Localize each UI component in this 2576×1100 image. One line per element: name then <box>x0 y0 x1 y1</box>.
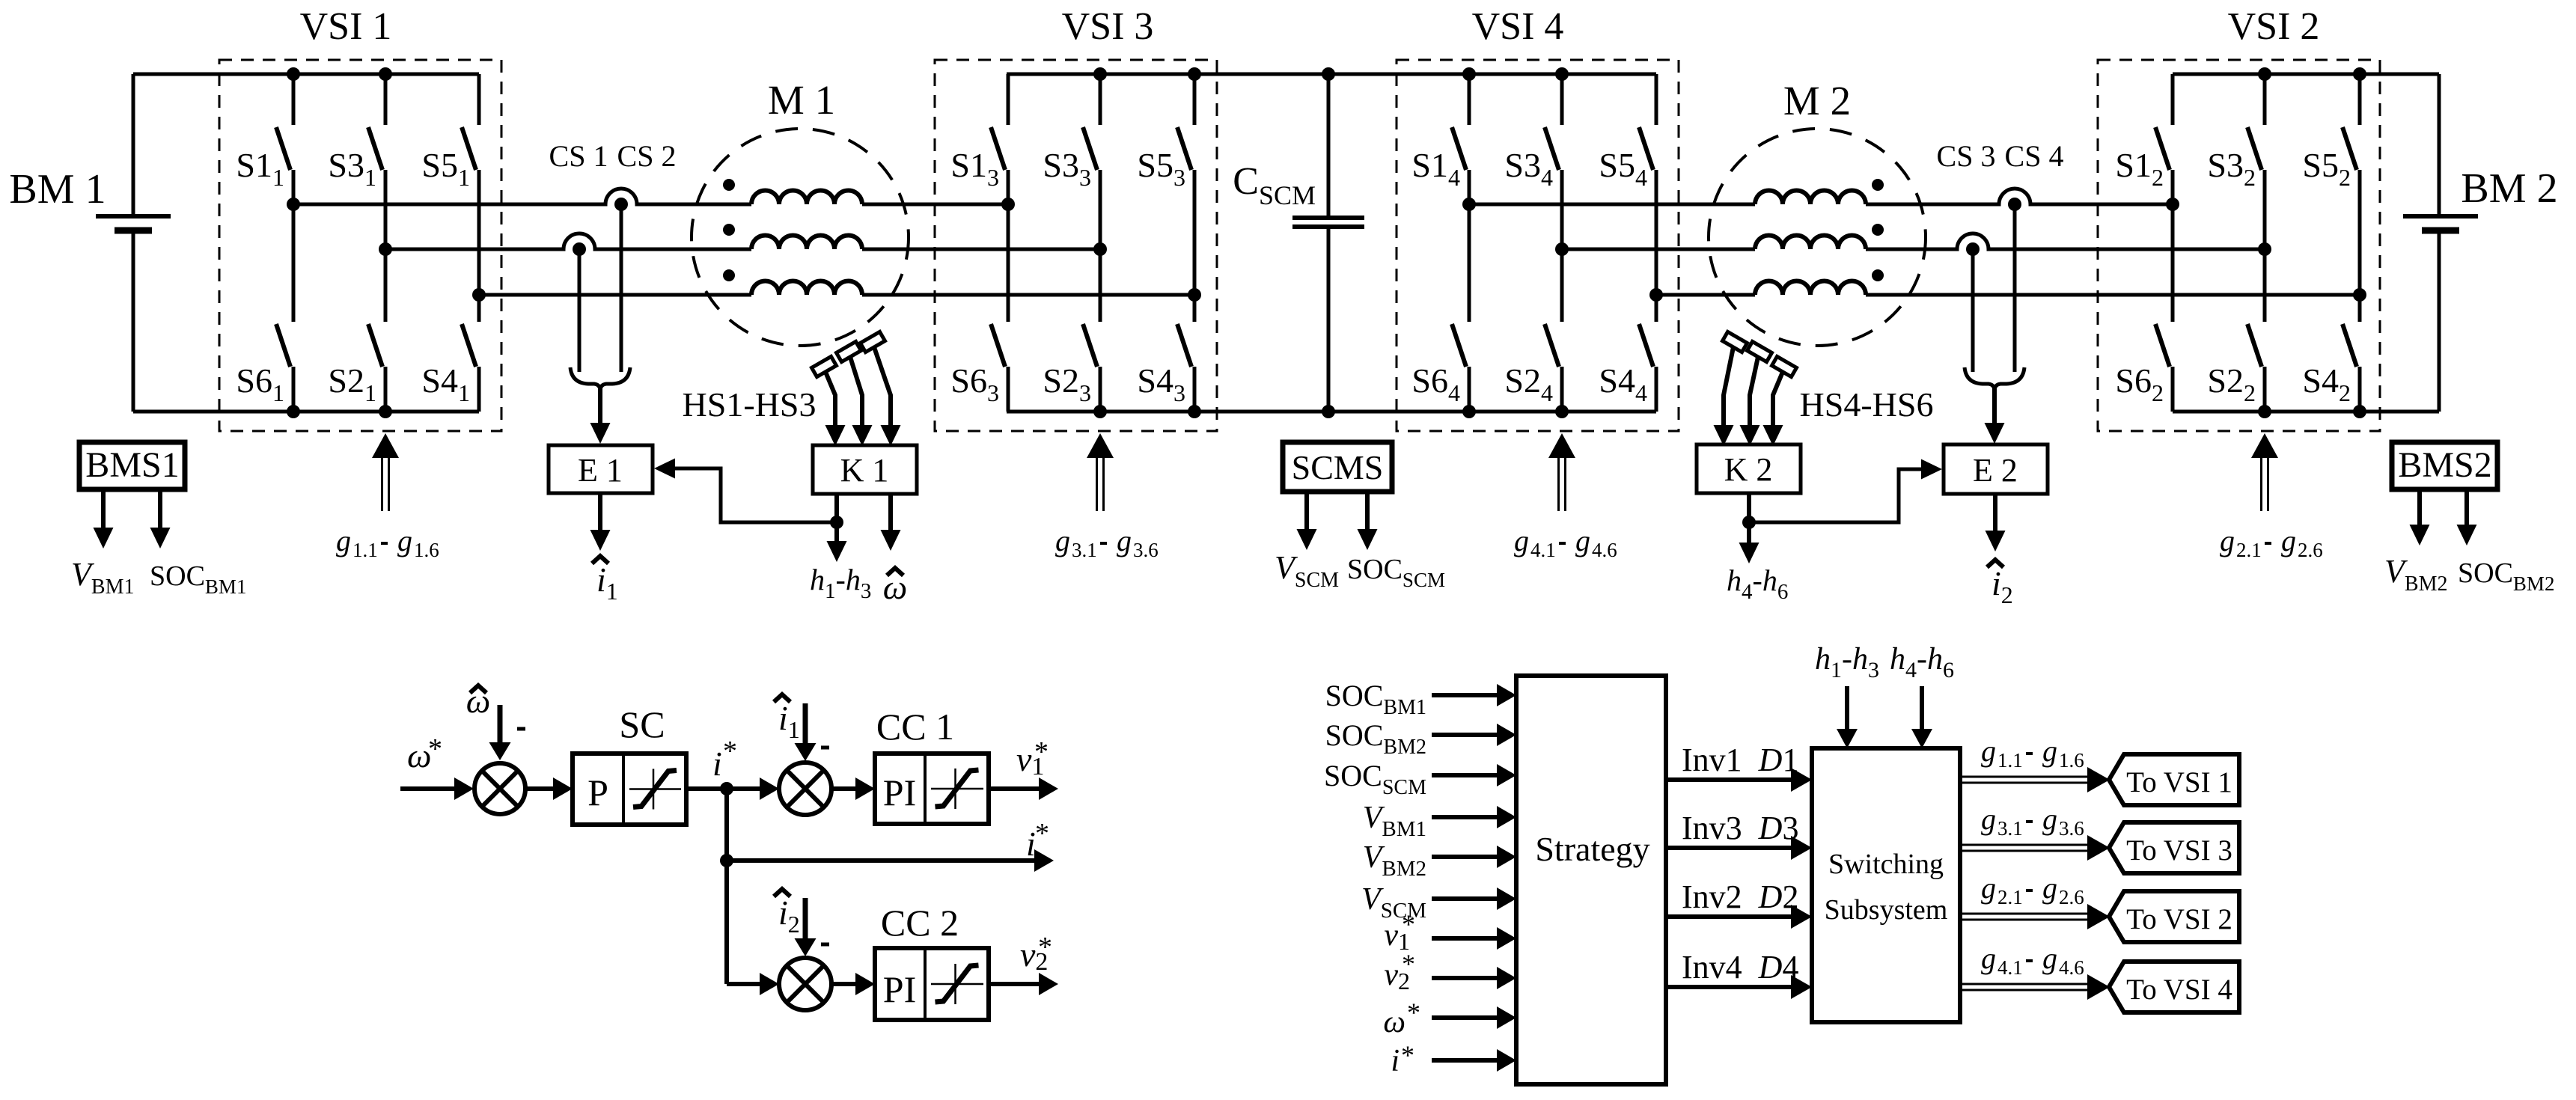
wire feedback K1 to E1 <box>654 459 837 523</box>
arrow input V_BM1 into Strategy <box>1432 806 1516 828</box>
block CC1 (PI with saturation) <box>875 754 989 824</box>
svg-text:Inv1 D1: Inv1 D1 <box>1682 742 1798 778</box>
hall sensor HS6 <box>1763 356 1797 446</box>
wire CS1 sense <box>578 249 582 372</box>
svg-text:g: g <box>2281 524 2296 557</box>
arrow V_BM1 out of BMS1 <box>94 489 114 549</box>
svg-text:Inv3 D3: Inv3 D3 <box>1682 810 1798 846</box>
label g3.1-g3.6 bus <box>1981 802 2084 840</box>
label CS 1 CS 2 <box>549 139 677 173</box>
winding M2 phase B <box>1755 236 1866 250</box>
svg-text:Subsystem: Subsystem <box>1825 894 1948 926</box>
wire phase B VSI4-M2 <box>1562 248 1755 251</box>
wire dc bus bottom VSI3-VSI4 <box>1007 410 1656 414</box>
switch S3_1 <box>328 74 385 249</box>
arrow omega_hat into sum1 <box>489 705 511 760</box>
label minus sum1 <box>517 727 525 731</box>
svg-text:4.1: 4.1 <box>1530 539 1556 561</box>
svg-text:g: g <box>397 524 412 557</box>
current sensor CS3 <box>1966 242 1980 256</box>
switch S1_2 <box>2115 74 2173 204</box>
svg-text:P: P <box>587 771 608 813</box>
svg-text:Inv4 D4: Inv4 D4 <box>1682 949 1798 986</box>
label BM 1 <box>9 166 106 213</box>
wire sum1 to SC <box>525 777 573 800</box>
svg-text:To VSI 4: To VSI 4 <box>2126 974 2232 1006</box>
svg-text:VSI 1: VSI 1 <box>300 5 392 48</box>
wire dc bus top BM1-VSI1 <box>133 73 479 76</box>
arrow i2 out of E2 <box>1986 494 2006 551</box>
label SOC_SCM <box>1347 554 1445 591</box>
hall sensor HS3 <box>861 331 901 446</box>
arrow Inv3 D3 Strategy to Switching <box>1666 836 1812 860</box>
svg-text:*: * <box>1407 997 1420 1027</box>
svg-text:K 2: K 2 <box>1724 451 1773 488</box>
switch S3_3 <box>1043 74 1100 249</box>
label BM 2 <box>2461 165 2557 212</box>
svg-text:3.1: 3.1 <box>1072 539 1097 561</box>
svg-text:HS4-HS6: HS4-HS6 <box>1800 385 1934 424</box>
svg-text:g: g <box>1117 524 1132 557</box>
switch S5_4 <box>1599 74 1656 295</box>
label g1.1-g1.6 bus <box>1981 734 2084 771</box>
label h4-h6 top <box>1890 642 1954 682</box>
switch S2_1 <box>328 249 385 412</box>
svg-text:3.6: 3.6 <box>2059 817 2084 840</box>
label i_star output <box>1026 818 1049 863</box>
svg-text:g: g <box>2042 802 2057 836</box>
wire phase B M1-VSI3 <box>862 248 1100 251</box>
wire dc bus top VSI3-VSI4 <box>1007 73 1656 76</box>
bracket CS3-CS4 <box>1965 367 2024 391</box>
label minus sum3 <box>821 943 829 947</box>
arrow i2_hat into sum3 <box>795 898 817 956</box>
block BMS1 <box>79 442 185 489</box>
inverter VSI3 dashed box <box>935 60 1217 431</box>
switch S4_4 <box>1599 295 1656 412</box>
wire i_star branch down <box>720 789 733 984</box>
svg-text:2.6: 2.6 <box>2298 539 2323 561</box>
bus g4.1-g4.6 Switching to tag <box>1960 974 2110 1000</box>
block CC2 (PI with saturation) <box>875 948 989 1020</box>
label omega_star input <box>407 733 442 774</box>
wire CS3 sense <box>1971 249 1975 372</box>
svg-text:i: i <box>712 745 722 783</box>
svg-text:ω: ω <box>1383 1005 1405 1039</box>
label CC 2 <box>881 902 959 944</box>
svg-text:CS 2: CS 2 <box>617 139 677 173</box>
block K2 <box>1697 444 1801 493</box>
arrow Inv4 D4 Strategy to Switching <box>1666 975 1812 999</box>
junction dots VSI3 phase inputs <box>1001 198 1201 302</box>
motor M1 dashed circle <box>692 129 909 346</box>
hall sensor HS2 <box>837 341 873 446</box>
capacitor C_SCM <box>1292 74 1364 412</box>
label VSI 3 <box>1062 5 1154 48</box>
label V_BM2 <box>2384 553 2447 596</box>
arrow SOC_BM1 out of BMS1 <box>150 489 171 549</box>
label CS 3 CS 4 <box>1937 139 2064 173</box>
label g2.1-g2.6 bus <box>1981 871 2084 908</box>
label g2.1-g2.6 <box>2220 524 2323 561</box>
label Inv2 D2 <box>1682 879 1798 915</box>
svg-text:VSI 4: VSI 4 <box>1472 5 1564 48</box>
arrow Inv1 D1 Strategy to Switching <box>1666 768 1812 792</box>
label Inv1 D1 <box>1682 742 1798 778</box>
arrow input v1_star into Strategy <box>1432 927 1516 950</box>
arrow h1-h3 out of K1 <box>827 494 847 562</box>
svg-text:M 2: M 2 <box>1783 78 1851 123</box>
winding M2 phase A <box>1755 191 1866 205</box>
svg-text:CC 2: CC 2 <box>881 902 959 944</box>
svg-text:1.6: 1.6 <box>2059 749 2084 771</box>
block K1 <box>813 445 917 494</box>
wire sum2 to CC1 <box>831 777 875 800</box>
switch S2_4 <box>1504 249 1562 412</box>
svg-text:ω: ω <box>883 568 907 606</box>
arrow input V_SCM into Strategy <box>1432 887 1516 910</box>
arrow i_star output <box>727 849 1054 872</box>
label Inv4 D4 <box>1682 949 1798 986</box>
svg-text:E 1: E 1 <box>578 452 623 489</box>
bus g3.1-g3.6 Switching to tag <box>1960 835 2110 861</box>
arrow omega_star into sum1 <box>400 777 474 800</box>
switch S1_4 <box>1411 74 1469 204</box>
svg-text:1.1: 1.1 <box>352 539 378 561</box>
block E1 <box>549 445 653 493</box>
svg-text:*: * <box>1038 932 1052 963</box>
switch S2_3 <box>1043 249 1100 412</box>
label g4.1-g4.6 <box>1514 524 1617 561</box>
wire feedback K2 to E2 <box>1749 459 1942 523</box>
svg-text:E 2: E 2 <box>1973 452 2018 489</box>
svg-text:SC: SC <box>619 703 665 745</box>
label SOC_BM2 <box>2458 557 2554 595</box>
arrow input SOC_BM2 into Strategy <box>1432 724 1516 746</box>
svg-text:Strategy: Strategy <box>1535 830 1649 868</box>
battery BM1 <box>96 74 171 412</box>
switch S1_1 <box>236 74 293 204</box>
svg-text:*: * <box>723 736 737 767</box>
arrow V_SCM out of SCMS <box>1297 492 1317 550</box>
svg-text:Switching: Switching <box>1828 849 1944 880</box>
wire phase B VSI1-M1 (with CS1 hump) <box>385 233 751 249</box>
svg-text:3.6: 3.6 <box>1133 539 1159 561</box>
current sensor CS4 <box>2008 198 2021 211</box>
svg-text:4.1: 4.1 <box>1997 956 2023 979</box>
label h1-h3 <box>810 563 871 603</box>
tag To VSI 3 <box>2109 822 2239 873</box>
switch S4_3 <box>1137 295 1194 412</box>
label omega_hat K1 <box>883 568 907 606</box>
arrow input V_BM2 into Strategy <box>1432 846 1516 868</box>
switch S4_2 <box>2302 295 2360 412</box>
svg-text:i: i <box>1391 1044 1400 1078</box>
arrow h4-h6 out of K2 <box>1739 493 1759 563</box>
label CC 1 <box>876 706 954 748</box>
block Switching Subsystem <box>1812 748 1960 1022</box>
svg-text:To VSI 3: To VSI 3 <box>2126 834 2232 867</box>
svg-text:HS1-HS3: HS1-HS3 <box>683 385 817 424</box>
label SC <box>619 703 665 745</box>
wire dc bus bottom BM1-VSI1 <box>133 410 479 414</box>
arrow SOC_BM2 out of BMS2 <box>2457 489 2477 546</box>
label VSI 2 <box>2228 5 2320 48</box>
wire phase C VSI1-M1 <box>479 293 751 297</box>
svg-text:g: g <box>2220 524 2235 557</box>
wire phase C M2-VSI2 <box>1866 293 2360 297</box>
gate arrow g1.1-g1.6 into VSI1 <box>372 433 399 511</box>
svg-text:M 1: M 1 <box>768 77 835 123</box>
summing junction sum3 <box>779 958 831 1010</box>
current sensor CS2 <box>614 198 628 211</box>
svg-text:CS 4: CS 4 <box>2005 139 2064 173</box>
inverter VSI1 dashed box <box>219 60 501 431</box>
winding M2 phase C <box>1755 281 1866 295</box>
arrow input SOC_BM1 into Strategy <box>1432 684 1516 706</box>
svg-text:g: g <box>1981 734 1996 768</box>
label C_SCM <box>1233 160 1316 210</box>
wire phase C M1-VSI3 <box>862 293 1194 297</box>
hall sensor HS4 <box>1714 331 1748 446</box>
label V_SCM <box>1275 549 1339 592</box>
svg-text:CS 3: CS 3 <box>1937 139 1996 173</box>
arrow omega out of K1 <box>881 494 901 551</box>
wire phase C VSI4-M2 <box>1656 293 1755 297</box>
switch S5_3 <box>1137 74 1194 295</box>
junction dots VSI2 buses <box>2258 67 2366 418</box>
arrow h4-h6 into Switching Subsystem <box>1911 686 1932 748</box>
label V_BM1 <box>71 556 134 599</box>
label v2_star <box>1020 932 1052 976</box>
label V_SCM input <box>1361 882 1426 923</box>
wire phase A M1-VSI3 <box>862 203 1008 207</box>
switch S4_1 <box>421 295 479 412</box>
wire SC to sum2 <box>686 777 779 800</box>
label i_star input <box>1391 1040 1414 1078</box>
gate arrow g3.1-g3.6 into VSI3 <box>1087 433 1114 511</box>
inverter VSI2 dashed box <box>2098 60 2380 431</box>
block SC (P with saturation) <box>573 754 686 825</box>
winding M1 phase A <box>751 191 862 205</box>
bus g2.1-g2.6 Switching to tag <box>1960 904 2110 929</box>
inverter VSI4 dashed box <box>1397 60 1679 431</box>
svg-text:g: g <box>1055 524 1070 557</box>
svg-text:CS 1: CS 1 <box>549 139 608 173</box>
svg-text:PI: PI <box>883 771 916 813</box>
wire to sum3 <box>727 973 779 995</box>
hall sensor HS1 <box>812 356 846 446</box>
bus g1.1-g1.6 Switching to tag <box>1960 767 2110 792</box>
junction dots VSI1 buses <box>287 67 392 418</box>
arrow v1_star output <box>989 777 1058 800</box>
svg-text:SCMS: SCMS <box>1292 448 1384 486</box>
summing junction sum1 <box>474 763 525 814</box>
label SOC_BM2 input <box>1325 718 1426 759</box>
svg-text:*: * <box>1034 736 1049 768</box>
label i2_hat <box>1987 560 2013 608</box>
label i1_hat estimate <box>774 694 800 743</box>
label v2_star input <box>1384 949 1415 994</box>
switch S6_3 <box>950 204 1008 412</box>
label SOC_BM1 <box>150 560 246 598</box>
arrow h1-h3 into Switching Subsystem <box>1837 686 1858 748</box>
svg-text:g: g <box>336 524 351 557</box>
switch S2_2 <box>2207 249 2265 412</box>
svg-text:VSI 2: VSI 2 <box>2228 5 2320 48</box>
wire dc bus bottom VSI2-BM2 <box>2173 410 2439 414</box>
svg-text:BM 2: BM 2 <box>2461 165 2557 212</box>
switch S6_1 <box>236 204 293 412</box>
svg-text:BMS2: BMS2 <box>2398 445 2491 485</box>
svg-text:g: g <box>1981 802 1996 836</box>
arrow input i_star into Strategy <box>1432 1049 1516 1072</box>
svg-text:*: * <box>1402 949 1415 979</box>
arrow SOC_SCM out of SCMS <box>1358 492 1378 550</box>
block Strategy <box>1516 676 1666 1084</box>
svg-text:*: * <box>1402 909 1415 939</box>
label omega_hat estimate <box>466 682 490 720</box>
junction dots VSI2 phase inputs <box>2166 198 2366 302</box>
svg-text:Inv2 D2: Inv2 D2 <box>1682 879 1798 915</box>
junction dots VSI4 phase outputs <box>1462 198 1663 302</box>
svg-text:*: * <box>1035 818 1049 849</box>
polarity dots M1 <box>723 179 735 281</box>
svg-text:g: g <box>2042 871 2057 905</box>
label V_BM2 input <box>1363 840 1426 881</box>
svg-text:To VSI 2: To VSI 2 <box>2126 903 2232 935</box>
arrow i1_hat into sum2 <box>795 703 817 761</box>
svg-text:2.1: 2.1 <box>1997 886 2023 908</box>
wire sum3 to CC2 <box>831 973 875 995</box>
block BMS2 <box>2392 442 2497 489</box>
label HS1-HS3 <box>683 385 817 424</box>
arrow into E2 <box>1985 388 2005 444</box>
arrow into E1 <box>590 388 611 444</box>
block SCMS <box>1283 442 1392 492</box>
label h1-h3 top <box>1815 642 1879 682</box>
label SOC_BM1 input <box>1325 679 1426 719</box>
svg-text:1.6: 1.6 <box>414 539 439 561</box>
switch S3_2 <box>2207 74 2265 249</box>
label SOC_SCM input <box>1324 759 1426 799</box>
bracket CS1-CS2 <box>570 367 630 391</box>
label M 2 <box>1783 78 1851 123</box>
label v1_star <box>1016 736 1049 780</box>
tag To VSI 4 <box>2109 962 2239 1012</box>
switch S6_4 <box>1411 204 1469 412</box>
label v1_star input <box>1384 909 1415 955</box>
arrow V_BM2 out of BMS2 <box>2410 489 2430 546</box>
label i2_hat estimate <box>774 889 800 938</box>
svg-text:g: g <box>1575 524 1590 557</box>
svg-text:2.6: 2.6 <box>2059 886 2084 908</box>
svg-text:*: * <box>1401 1040 1414 1070</box>
label i1_hat <box>592 556 618 605</box>
winding M1 phase C <box>751 281 862 295</box>
switch S5_2 <box>2302 74 2360 295</box>
label VSI 4 <box>1472 5 1564 48</box>
wire phase A VSI4-M2 <box>1469 203 1755 207</box>
svg-text:g: g <box>2042 941 2057 975</box>
svg-text:BM 1: BM 1 <box>9 166 106 213</box>
svg-text:2.1: 2.1 <box>2236 539 2262 561</box>
svg-text:ω: ω <box>466 682 490 720</box>
label minus sum2 <box>821 746 829 750</box>
hall sensor HS5 <box>1740 341 1772 446</box>
svg-text:CC 1: CC 1 <box>876 706 954 748</box>
svg-text:VSI 3: VSI 3 <box>1062 5 1154 48</box>
wire CS4 sense <box>2013 204 2017 372</box>
wire phase B M2-VSI2 (with CS3 hump) <box>1866 233 2265 249</box>
wire phase A VSI1-M1 (with CS2 hump) <box>293 189 751 204</box>
label Inv3 D3 <box>1682 810 1798 846</box>
label VSI 1 <box>300 5 392 48</box>
svg-text:g: g <box>1981 871 1996 905</box>
junction dots middle buses <box>1093 67 1569 418</box>
current sensor CS1 <box>573 242 586 256</box>
svg-text:K 1: K 1 <box>840 452 889 489</box>
svg-text:4.6: 4.6 <box>1592 539 1617 561</box>
arrow v2_star output <box>989 973 1058 995</box>
svg-text:PI: PI <box>883 968 916 1010</box>
label omega_star input <box>1383 997 1420 1039</box>
switch S1_3 <box>950 74 1008 204</box>
label h4-h6 <box>1727 563 1788 604</box>
label g4.1-g4.6 bus <box>1981 941 2084 979</box>
summing junction sum2 <box>779 763 831 815</box>
battery BM2 <box>2403 74 2478 412</box>
svg-text:3.1: 3.1 <box>1997 817 2023 840</box>
svg-text:g: g <box>1981 941 1996 975</box>
svg-text:g: g <box>1514 524 1529 557</box>
gate arrow g4.1-g4.6 into VSI4 <box>1548 433 1575 511</box>
svg-text:i: i <box>1026 825 1036 863</box>
svg-text:g: g <box>2042 734 2057 768</box>
arrow input SOC_SCM into Strategy <box>1432 764 1516 786</box>
winding M1 phase B <box>751 236 862 250</box>
switch S6_2 <box>2115 204 2173 412</box>
svg-text:*: * <box>428 733 442 765</box>
arrow i1 out of E1 <box>590 493 611 551</box>
arrow input v2_star into Strategy <box>1432 967 1516 989</box>
label g3.1-g3.6 <box>1055 524 1159 561</box>
block E2 <box>1944 444 2048 494</box>
label g1.1-g1.6 <box>336 524 439 561</box>
motor M2 dashed circle <box>1709 129 1926 346</box>
gate arrow g2.1-g2.6 into VSI2 <box>2251 433 2278 511</box>
arrow input omega_star into Strategy <box>1432 1006 1516 1029</box>
svg-text:1.1: 1.1 <box>1997 749 2023 771</box>
svg-text:BMS1: BMS1 <box>85 445 179 485</box>
arrow Inv2 D2 Strategy to Switching <box>1666 905 1812 929</box>
label HS4-HS6 <box>1800 385 1934 424</box>
tag To VSI 1 <box>2109 754 2239 805</box>
wire dc bus top VSI2-BM2 <box>2173 73 2439 76</box>
svg-text:4.6: 4.6 <box>2059 956 2084 979</box>
junction dots VSI1 phase outputs <box>287 198 486 302</box>
polarity dots M2 <box>1872 179 1884 281</box>
tag To VSI 2 <box>2109 891 2239 942</box>
wire phase A M2-VSI2 (with CS4 hump) <box>1866 189 2173 204</box>
label i_star after SC <box>712 736 737 783</box>
label M 1 <box>768 77 835 123</box>
label V_BM1 input <box>1363 801 1426 841</box>
switch S5_1 <box>421 74 479 295</box>
wire CS2 sense <box>620 204 623 372</box>
switch S3_4 <box>1504 74 1562 249</box>
svg-text:To VSI 1: To VSI 1 <box>2126 766 2232 798</box>
